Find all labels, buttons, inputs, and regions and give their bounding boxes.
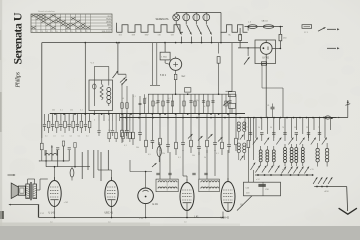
switch S tuner <box>122 79 128 85</box>
tube UW2 <box>164 60 166 63</box>
svg-text:0,1: 0,1 <box>45 136 48 138</box>
svg-text:1k: 1k <box>258 127 260 129</box>
can bottom wires <box>93 111 95 114</box>
svg-text:25k: 25k <box>162 153 165 155</box>
wire rectifier anode <box>265 54 267 63</box>
svg-text:50k: 50k <box>52 110 55 112</box>
table X marks <box>31 14 90 29</box>
wire bus1 <box>42 42 248 44</box>
svg-text:0,1: 0,1 <box>70 136 73 138</box>
wire drop x118 <box>117 43 119 75</box>
svg-text:a 52: a 52 <box>256 179 260 181</box>
tube UY42 <box>260 43 272 55</box>
AVC comb wires <box>149 94 237 114</box>
right bank caps <box>249 132 252 134</box>
IF can box <box>89 80 113 111</box>
IF transformer T1 <box>156 179 178 192</box>
svg-text:KW: KW <box>132 35 135 37</box>
wire filament bus <box>39 217 223 219</box>
mains switch S1 <box>318 27 325 31</box>
wire bus2a <box>50 113 245 115</box>
svg-text:1,0: 1,0 <box>50 221 53 223</box>
wafer comb right extension <box>99 114 130 121</box>
wire rectifier cathode <box>272 47 280 49</box>
svg-text:0,1: 0,1 <box>216 153 219 155</box>
electrolytic C52 <box>71 167 73 169</box>
svg-text:100-220V: 100-220V <box>102 31 112 33</box>
resistor R at x236 <box>235 114 237 138</box>
svg-text:0,1: 0,1 <box>133 96 136 98</box>
wire drop x152 <box>151 43 153 86</box>
grid resistors x122-144 <box>121 83 123 114</box>
IF transformer T2 <box>199 179 220 192</box>
svg-text:50: 50 <box>122 98 124 100</box>
resistor pair right <box>229 92 236 97</box>
switch S mid <box>152 163 157 167</box>
svg-text:0,1: 0,1 <box>53 136 56 138</box>
fuse F2 <box>263 25 273 29</box>
svg-text:Rufe: Rufe <box>106 19 111 21</box>
svg-text:0,1: 0,1 <box>61 136 64 138</box>
resistor R left frame <box>41 138 43 143</box>
capacitor C at x152 <box>151 114 153 140</box>
svg-text:d: d <box>94 120 95 122</box>
K box drop wires <box>247 118 249 140</box>
svg-text:0,1: 0,1 <box>204 106 207 108</box>
svg-text:LW: LW <box>158 35 161 37</box>
svg-text:25k: 25k <box>70 110 73 112</box>
wire AVC line <box>148 93 236 95</box>
svg-text:50: 50 <box>270 127 272 129</box>
svg-text:25: 25 <box>212 102 214 104</box>
svg-text:0,1: 0,1 <box>86 136 89 138</box>
wire mains lead <box>245 26 284 28</box>
svg-text:1 MΩ: 1 MΩ <box>161 57 167 59</box>
svg-text:70: 70 <box>282 127 284 129</box>
capacitor C41 <box>271 106 275 108</box>
svg-text:5k: 5k <box>204 157 206 159</box>
capacitor C at x140 <box>139 114 141 132</box>
connection box K <box>244 182 281 196</box>
svg-text:2M: 2M <box>144 98 147 100</box>
detector switch ticks <box>188 134 193 139</box>
resistor R at x133 <box>132 114 134 132</box>
wire lamp top bus <box>176 12 221 14</box>
svg-text:0,5: 0,5 <box>148 154 151 156</box>
svg-text:UCH 42: UCH 42 <box>221 217 230 220</box>
resistor R mains-left <box>239 28 241 35</box>
bottom scan shadow <box>0 223 150 227</box>
coil bank junction line <box>255 174 313 176</box>
fuse F1 <box>248 25 257 29</box>
rectifier box <box>255 40 276 64</box>
coil small left <box>45 154 57 156</box>
svg-text:0,1: 0,1 <box>78 136 81 138</box>
resistor R mains <box>280 26 282 28</box>
osc coils small <box>237 122 240 125</box>
resistor in can <box>100 84 103 100</box>
svg-text:SERENATA: SERENATA <box>156 18 169 21</box>
tube UM4 <box>138 188 154 204</box>
resistor R at x160 <box>159 114 161 138</box>
svg-text:Ge!: Ge! <box>182 76 186 78</box>
osc junction dots <box>316 186 318 188</box>
osc switch arrows <box>313 177 317 184</box>
lamp switch contacts <box>175 21 177 25</box>
capacitor C at x183 <box>182 114 184 142</box>
switch position table <box>31 14 112 32</box>
mid lower wiring <box>130 171 152 173</box>
svg-text:Philips: Philips <box>15 71 22 88</box>
switch S mains2 <box>247 27 249 31</box>
svg-text:50p: 50p <box>196 100 199 102</box>
resistor R at x122 <box>121 114 123 130</box>
wire rect box down <box>261 64 263 89</box>
svg-text:L 41: L 41 <box>194 216 199 219</box>
svg-text:50: 50 <box>294 127 296 129</box>
switch wafer contacts <box>45 114 90 121</box>
left lower wiring <box>39 160 69 162</box>
dial lamp L2 <box>183 14 190 21</box>
transformer core <box>29 182 31 200</box>
mains plug arrow 1 <box>327 28 336 30</box>
switch S can2 <box>113 71 119 78</box>
speaker <box>11 183 18 199</box>
dial lamp L4 <box>203 14 210 21</box>
trimmer in can <box>93 84 95 90</box>
coil in can <box>107 88 111 92</box>
capacitor C at x168 <box>167 114 169 144</box>
capacitor C mid <box>218 43 220 54</box>
tube L 41 <box>180 183 194 211</box>
svg-text:1,0: 1,0 <box>108 221 111 223</box>
svg-text:0,1: 0,1 <box>80 110 83 112</box>
can top wires <box>93 80 95 84</box>
svg-text:e: e <box>108 120 109 122</box>
coil group 1 <box>259 150 262 153</box>
left scan edge <box>0 0 2 226</box>
resistor R at x207 <box>206 114 208 140</box>
svg-text:25: 25 <box>306 127 308 129</box>
wire band-switch castellation left <box>117 23 183 32</box>
wire tube1 top <box>54 166 56 181</box>
svg-text:KG: KG <box>119 35 122 37</box>
tube UCH 42 <box>221 182 235 212</box>
output transformer <box>26 184 37 199</box>
wire tube down <box>175 70 177 74</box>
svg-text:0,2: 0,2 <box>168 98 171 100</box>
svg-text:C41: C41 <box>266 105 269 107</box>
capacitor C at x199 <box>198 114 200 146</box>
svg-text:0,1: 0,1 <box>60 110 63 112</box>
wire bus2b <box>120 117 337 119</box>
wire left frame <box>41 43 43 138</box>
resistor R at x191 <box>190 114 192 140</box>
svg-text:0,1: 0,1 <box>124 145 127 147</box>
svg-text:UBC 41: UBC 41 <box>105 212 114 215</box>
coil switch arrows row1 <box>255 166 260 173</box>
svg-text:70: 70 <box>247 127 249 129</box>
svg-text:a 55: a 55 <box>310 169 314 171</box>
resistor R at x176 <box>175 114 177 142</box>
resistor R at x222 <box>221 114 223 142</box>
svg-text:50k: 50k <box>136 147 139 149</box>
wire drop x157 <box>156 43 158 86</box>
bus2 end components <box>337 117 348 119</box>
dial lamp L1 <box>173 14 180 21</box>
capacitor C mains <box>302 25 312 29</box>
bus junction dots <box>54 113 56 115</box>
capacitor C at x215 <box>214 114 216 142</box>
tube U L41 <box>48 181 61 207</box>
mains plug arrow 2 <box>327 47 336 49</box>
capacitor C at x127 <box>126 114 128 130</box>
dial lamp L3 <box>193 14 200 21</box>
AVC comb components <box>152 101 154 106</box>
coil group 3 <box>316 148 319 151</box>
wafer resistors right <box>108 132 111 138</box>
K box diagonal wire <box>237 196 252 211</box>
svg-text:1,0: 1,0 <box>184 221 187 223</box>
svg-text:a 54: a 54 <box>282 169 286 171</box>
svg-text:25k: 25k <box>108 130 111 132</box>
wire mains node <box>238 47 260 49</box>
coil group 2 <box>284 148 287 151</box>
svg-text:2 4Ω: 2 4Ω <box>139 218 144 220</box>
page edge mark <box>0 211 4 219</box>
switch S detector <box>223 101 229 105</box>
left row components y147 <box>56 147 59 149</box>
resistor 18k box <box>164 43 166 53</box>
wire band-switch castellation right <box>221 25 248 32</box>
speaker return wire <box>9 204 11 206</box>
transformer wires <box>27 179 29 184</box>
svg-text:Serenata U: Serenata U <box>11 12 25 64</box>
aerial arrow <box>314 186 347 188</box>
svg-text:5A 0,6: 5A 0,6 <box>262 19 269 22</box>
aerial up arrow <box>347 100 349 118</box>
svg-text:Stand schakelaar: Stand schakelaar <box>38 10 55 13</box>
wafer resistors <box>47 121 50 128</box>
switch S band2 <box>120 78 126 83</box>
component box mid <box>185 88 191 92</box>
svg-text:50k: 50k <box>155 103 158 105</box>
svg-text:70: 70 <box>318 127 320 129</box>
svg-text:0,1: 0,1 <box>178 157 181 159</box>
electrolytic C60 <box>158 142 160 147</box>
svg-text:5 W 2: 5 W 2 <box>160 75 167 77</box>
wire rect to bus <box>265 64 267 118</box>
electrolytic C40 <box>261 62 266 65</box>
resistor R at x146 <box>145 114 147 140</box>
caps lower mid <box>156 172 159 174</box>
svg-text:50k: 50k <box>192 155 195 157</box>
speaker feed arrow <box>8 174 14 176</box>
right bank drops <box>244 118 246 130</box>
wire drop x85 <box>84 43 86 114</box>
svg-text:MW: MW <box>145 35 149 37</box>
right bank switches <box>253 138 258 145</box>
capacitor C at x229 <box>228 114 230 144</box>
tube UBC 41 <box>105 181 118 207</box>
svg-text:E 4Ω: E 4Ω <box>153 204 158 206</box>
tube top wires <box>186 179 188 182</box>
